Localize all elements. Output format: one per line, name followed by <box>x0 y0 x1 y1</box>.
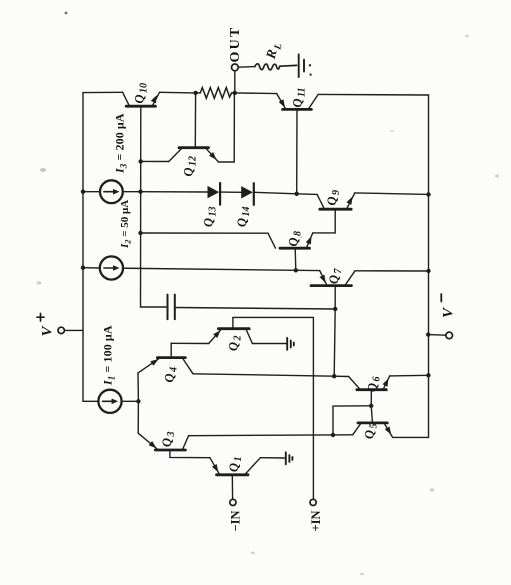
wire Q1 collector to ground <box>260 457 284 459</box>
transistor Q2 <box>209 317 314 499</box>
node OUT junction <box>233 91 237 95</box>
node V- terminal junction <box>426 332 430 336</box>
ground (Q2 collector) <box>287 338 294 350</box>
transistor Q8 <box>268 231 313 270</box>
node rail junction (Q6) <box>426 373 430 377</box>
resistor R <box>196 88 235 99</box>
node Q7 base junction <box>333 307 337 311</box>
wire Q4 emitter down to I1 node <box>137 373 139 401</box>
diode Q14 <box>235 183 254 227</box>
node -IN label <box>229 510 243 531</box>
wire node to Q9 collector <box>297 193 317 196</box>
wire Q2 emitter to Q4 base <box>171 342 209 344</box>
node rail junction (Q7) <box>426 269 430 273</box>
wire Q3 emitter up to I1 node <box>137 401 139 433</box>
wire Q12 emitter to OUT column <box>219 93 235 162</box>
wire Q7 emitter to Q8 base node <box>296 269 320 271</box>
wire RL to ground <box>280 64 297 67</box>
node I1 label <box>101 325 117 386</box>
node diff pair emitter junction <box>136 399 140 403</box>
wire to V- terminal <box>428 334 446 337</box>
wire Q12 collector to bus <box>141 160 169 162</box>
node V- terminal <box>446 332 453 339</box>
wire V- rail <box>428 95 430 437</box>
resistor RL (hand-drawn) <box>255 64 280 70</box>
transistor Q4 <box>138 343 193 382</box>
current source I1 <box>98 390 121 413</box>
diode Q13 <box>202 183 221 227</box>
capacitor C <box>168 295 175 320</box>
node rail-I2 junction <box>81 266 85 270</box>
wire rail to I3 <box>83 191 100 193</box>
wire Q7 collector to rail <box>355 270 429 272</box>
wire I1 to diff pair node <box>122 400 139 402</box>
node V- label <box>441 294 457 318</box>
wire Q8 collector to bus <box>141 232 269 234</box>
current source I3 <box>100 180 123 203</box>
node OUT label <box>228 26 243 63</box>
node Q12 collector junction <box>139 159 143 163</box>
wire bus (Q10 base column) <box>141 161 168 307</box>
wire I2 to Q8 base node <box>123 268 296 270</box>
transistor Q1 <box>210 456 261 499</box>
transistor Q10 <box>123 83 160 161</box>
node Q8 base junction <box>294 268 298 272</box>
node R left junction <box>193 91 197 95</box>
transistor Q9 <box>313 190 355 233</box>
wire Q9 emitter to rail <box>355 193 429 195</box>
svg-text:+IN: +IN <box>309 510 323 531</box>
current source I2 <box>100 256 123 279</box>
wire Q4 collector to Q6 collector node <box>193 374 334 376</box>
node rail junction (Q9) <box>426 192 430 196</box>
svg-text:−IN: −IN <box>229 510 243 531</box>
svg-text:OUT: OUT <box>228 26 243 63</box>
wire top rail to Q10 <box>83 91 123 93</box>
wire rail to I1 <box>83 400 98 402</box>
node I2 label <box>119 200 133 249</box>
wire Q11 collector to V- rail <box>318 93 428 96</box>
node bus-I3 junction <box>138 190 142 194</box>
transistor Q12 <box>169 93 219 177</box>
transistor Q7 <box>311 267 355 309</box>
node Q5 Q6 base junction <box>369 404 373 408</box>
transistor Q5 <box>353 406 393 439</box>
wire OUT node to Q11 emitter <box>235 92 277 95</box>
wire between diodes <box>220 191 241 193</box>
wire Q3 collector to Q5 <box>189 434 353 437</box>
wire Q5 emitter to rail bottom <box>393 436 429 438</box>
ground (RL load ground) <box>299 54 312 77</box>
wire Q6 emitter to rail <box>390 374 429 377</box>
wire V+ rail <box>82 93 84 402</box>
ground (Q1 collector) <box>286 452 293 464</box>
transistor Q11 <box>277 88 319 194</box>
wire V+ terminal to rail <box>64 329 83 331</box>
node V+ terminal <box>58 327 64 333</box>
wire I3 to diode row <box>123 191 141 193</box>
node bus-Q8 junction <box>138 231 142 235</box>
wire diode row left <box>140 191 207 193</box>
wire rail to I2 <box>83 267 100 269</box>
wire Q10 emitter to R <box>160 91 196 94</box>
node V+ label <box>37 314 56 337</box>
transistor Q6 <box>349 376 390 406</box>
wire Q14 to Q11 base node <box>254 192 297 194</box>
wire Q6 collector to node <box>334 375 348 377</box>
node I3 label <box>113 113 129 174</box>
node RL label <box>263 40 285 62</box>
wire Q7 base to Q6 collector node <box>334 309 335 376</box>
node +IN terminal <box>310 499 316 505</box>
node OUT terminal <box>232 64 239 71</box>
wire OUT to RL <box>238 66 255 69</box>
node Q6 collector junction <box>332 374 336 378</box>
node Q11 base junction <box>295 192 299 196</box>
wire OUT stem <box>234 71 236 93</box>
node -IN terminal <box>230 499 236 505</box>
node rail-I3 junction <box>81 190 85 194</box>
wire capacitor to Q7 base <box>175 308 335 310</box>
node Q5 collector junction <box>331 433 335 437</box>
node +IN label <box>309 510 323 531</box>
wire Q2 collector to ground <box>252 343 286 345</box>
wire base tie to Q5 collector <box>333 406 371 435</box>
transistor Q3 <box>138 431 210 457</box>
